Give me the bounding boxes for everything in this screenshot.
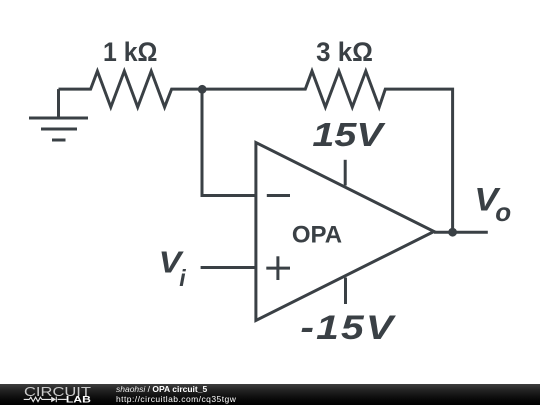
svg-text:-15V: -15V	[300, 308, 396, 346]
svg-text:3 kΩ: 3 kΩ	[316, 37, 373, 68]
svg-text:OPA: OPA	[292, 222, 342, 249]
svg-text:o: o	[495, 197, 511, 227]
svg-text:1 kΩ: 1 kΩ	[103, 38, 157, 67]
svg-text:LAB: LAB	[66, 395, 91, 405]
svg-text:i: i	[179, 265, 186, 291]
svg-text:15V: 15V	[312, 116, 385, 153]
